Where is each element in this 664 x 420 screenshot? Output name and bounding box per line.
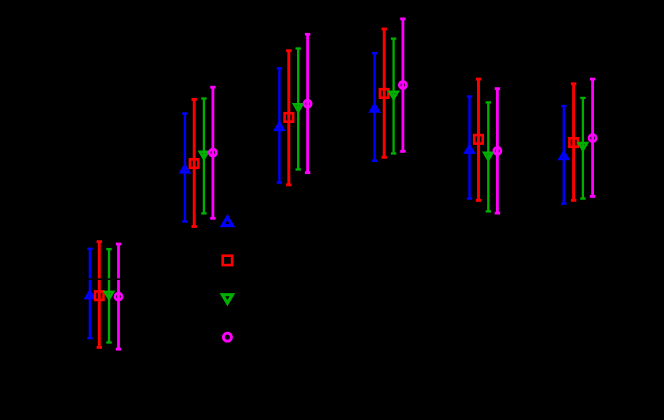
- group 3 blue errorbar: [277, 68, 282, 182]
- group 4 red errorbar: [382, 29, 387, 157]
- group 2 magenta errorbar: [210, 87, 215, 218]
- group 2 green marker: [200, 152, 208, 159]
- group 1 blue errorbar: [87, 249, 92, 338]
- black horizontal line: [60, 278, 645, 280]
- group 4 magenta errorbar: [400, 19, 405, 152]
- group 2 blue errorbar: [182, 114, 187, 222]
- group 3 magenta marker: [304, 100, 311, 107]
- group 1 red marker: [95, 291, 104, 300]
- group 3 blue marker: [275, 123, 283, 130]
- legend green marker: [222, 295, 232, 304]
- group 3 red marker: [285, 113, 294, 122]
- group 6 blue marker: [560, 152, 568, 159]
- group 6 magenta marker: [589, 134, 596, 141]
- group 6 red marker: [569, 138, 578, 147]
- group 1 red errorbar: [97, 242, 102, 348]
- group 4 blue marker: [371, 104, 379, 111]
- legend red marker: [223, 256, 232, 265]
- group 5 red errorbar: [476, 79, 481, 200]
- group 1 green marker: [105, 292, 113, 299]
- group 2 blue marker: [181, 165, 189, 172]
- group 2 green errorbar: [201, 99, 206, 214]
- group 6 magenta errorbar: [590, 79, 595, 196]
- group 2 red marker: [190, 159, 199, 168]
- group 6 blue errorbar: [561, 106, 566, 204]
- group 6 red errorbar: [571, 84, 576, 201]
- group 3 red errorbar: [286, 51, 291, 185]
- legend blue marker: [222, 217, 232, 226]
- group 5 red marker: [474, 135, 483, 144]
- group 4 red marker: [380, 89, 389, 98]
- group 2 red errorbar: [192, 99, 197, 226]
- group 3 green marker: [294, 104, 302, 111]
- group 4 green errorbar: [391, 39, 396, 154]
- group 6 green marker: [579, 143, 587, 150]
- group 1 magenta marker: [115, 293, 122, 300]
- group 4 blue errorbar: [372, 53, 377, 161]
- group 2 magenta marker: [209, 149, 216, 156]
- group 1 blue marker: [86, 291, 94, 298]
- group 6 green errorbar: [580, 98, 585, 199]
- group 4 magenta marker: [399, 81, 406, 88]
- group 3 magenta errorbar: [305, 34, 310, 172]
- group 5 green errorbar: [486, 102, 491, 211]
- group 5 green marker: [484, 153, 492, 160]
- group 5 blue errorbar: [467, 97, 472, 199]
- legend magenta marker: [223, 333, 231, 341]
- group 5 magenta errorbar: [495, 89, 500, 214]
- group 4 green marker: [390, 92, 398, 99]
- group 5 blue marker: [465, 146, 473, 153]
- group 1 magenta errorbar: [116, 244, 121, 349]
- group 3 green errorbar: [296, 49, 301, 170]
- group 5 magenta marker: [494, 147, 501, 154]
- group 1 green errorbar: [106, 249, 111, 342]
